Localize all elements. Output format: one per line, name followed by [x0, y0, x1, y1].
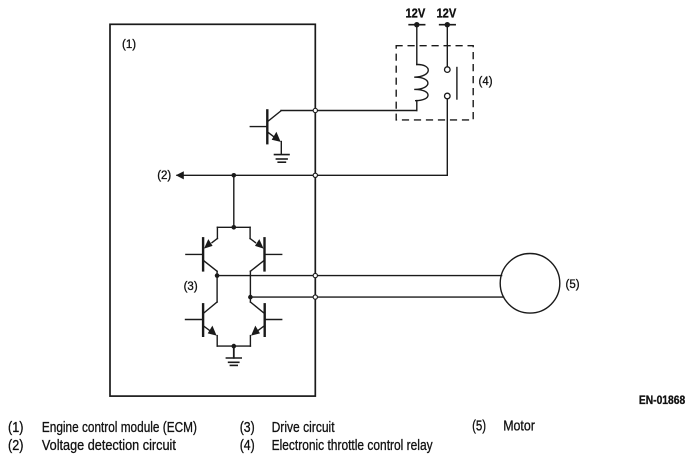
relay switch contacts	[445, 67, 457, 99]
wire: down to H-bridge	[233, 175, 235, 227]
svg-text:(2): (2)	[8, 438, 23, 454]
svg-text:(1): (1)	[8, 420, 23, 436]
motor M (5)	[500, 253, 560, 313]
junction dot on (2) line	[232, 173, 237, 178]
12V supply terminal (left)	[409, 22, 424, 65]
svg-text:Electronic throttle control re: Electronic throttle control relay	[272, 438, 434, 454]
wire: relay switch to (2) line	[446, 99, 448, 175]
wire: motor lead 2	[250, 296, 503, 298]
svg-text:(4): (4)	[240, 438, 255, 454]
svg-text:12V: 12V	[406, 7, 426, 21]
svg-text:(5): (5)	[566, 279, 580, 291]
wire: relay coil bottom lead	[416, 101, 418, 111]
ECM box (1)	[110, 24, 315, 396]
svg-text:(3): (3)	[240, 420, 255, 436]
svg-text:(5): (5)	[472, 419, 486, 435]
H-bridge top rail	[217, 225, 250, 239]
ground (Q1 emitter)	[275, 155, 290, 163]
terminal pins on ECM edge	[313, 108, 317, 299]
svg-text:(3): (3)	[184, 281, 198, 293]
transistor Q3 (top-right PNP)	[250, 238, 282, 271]
svg-text:12V: 12V	[437, 7, 457, 21]
12V supply terminal (right)	[440, 22, 455, 67]
svg-text:Motor: Motor	[503, 419, 535, 435]
transistor Q4 (bottom-left NPN)	[186, 302, 234, 346]
svg-text:EN-01868: EN-01868	[639, 395, 686, 407]
wire: Q1 collector to relay coil	[281, 110, 417, 112]
svg-text:Voltage detection circuit: Voltage detection circuit	[42, 438, 176, 454]
transistor Q2 (top-left PNP)	[186, 238, 218, 271]
arrowhead (2)	[176, 171, 184, 179]
svg-text:(1): (1)	[122, 39, 136, 51]
svg-text:Engine control module (ECM): Engine control module (ECM)	[42, 420, 197, 436]
wire: bridge ground stem	[233, 346, 235, 358]
svg-text:(2): (2)	[157, 170, 171, 182]
svg-text:Drive circuit: Drive circuit	[272, 420, 335, 436]
svg-text:(4): (4)	[479, 76, 493, 88]
node: left bridge output	[215, 271, 220, 302]
ground (H-bridge)	[226, 358, 241, 365]
wire: motor lead 1	[217, 275, 502, 277]
node: bridge bottom	[232, 344, 237, 349]
relay coil L1	[414, 64, 428, 100]
relay switch blade	[456, 68, 458, 100]
transistor Q5 (bottom-right NPN)	[234, 302, 282, 346]
node: right bridge output	[248, 271, 253, 302]
transistor Q1	[250, 110, 281, 154]
wire: voltage detection line (2)	[177, 174, 447, 176]
relay (4) dashed box	[396, 46, 473, 120]
